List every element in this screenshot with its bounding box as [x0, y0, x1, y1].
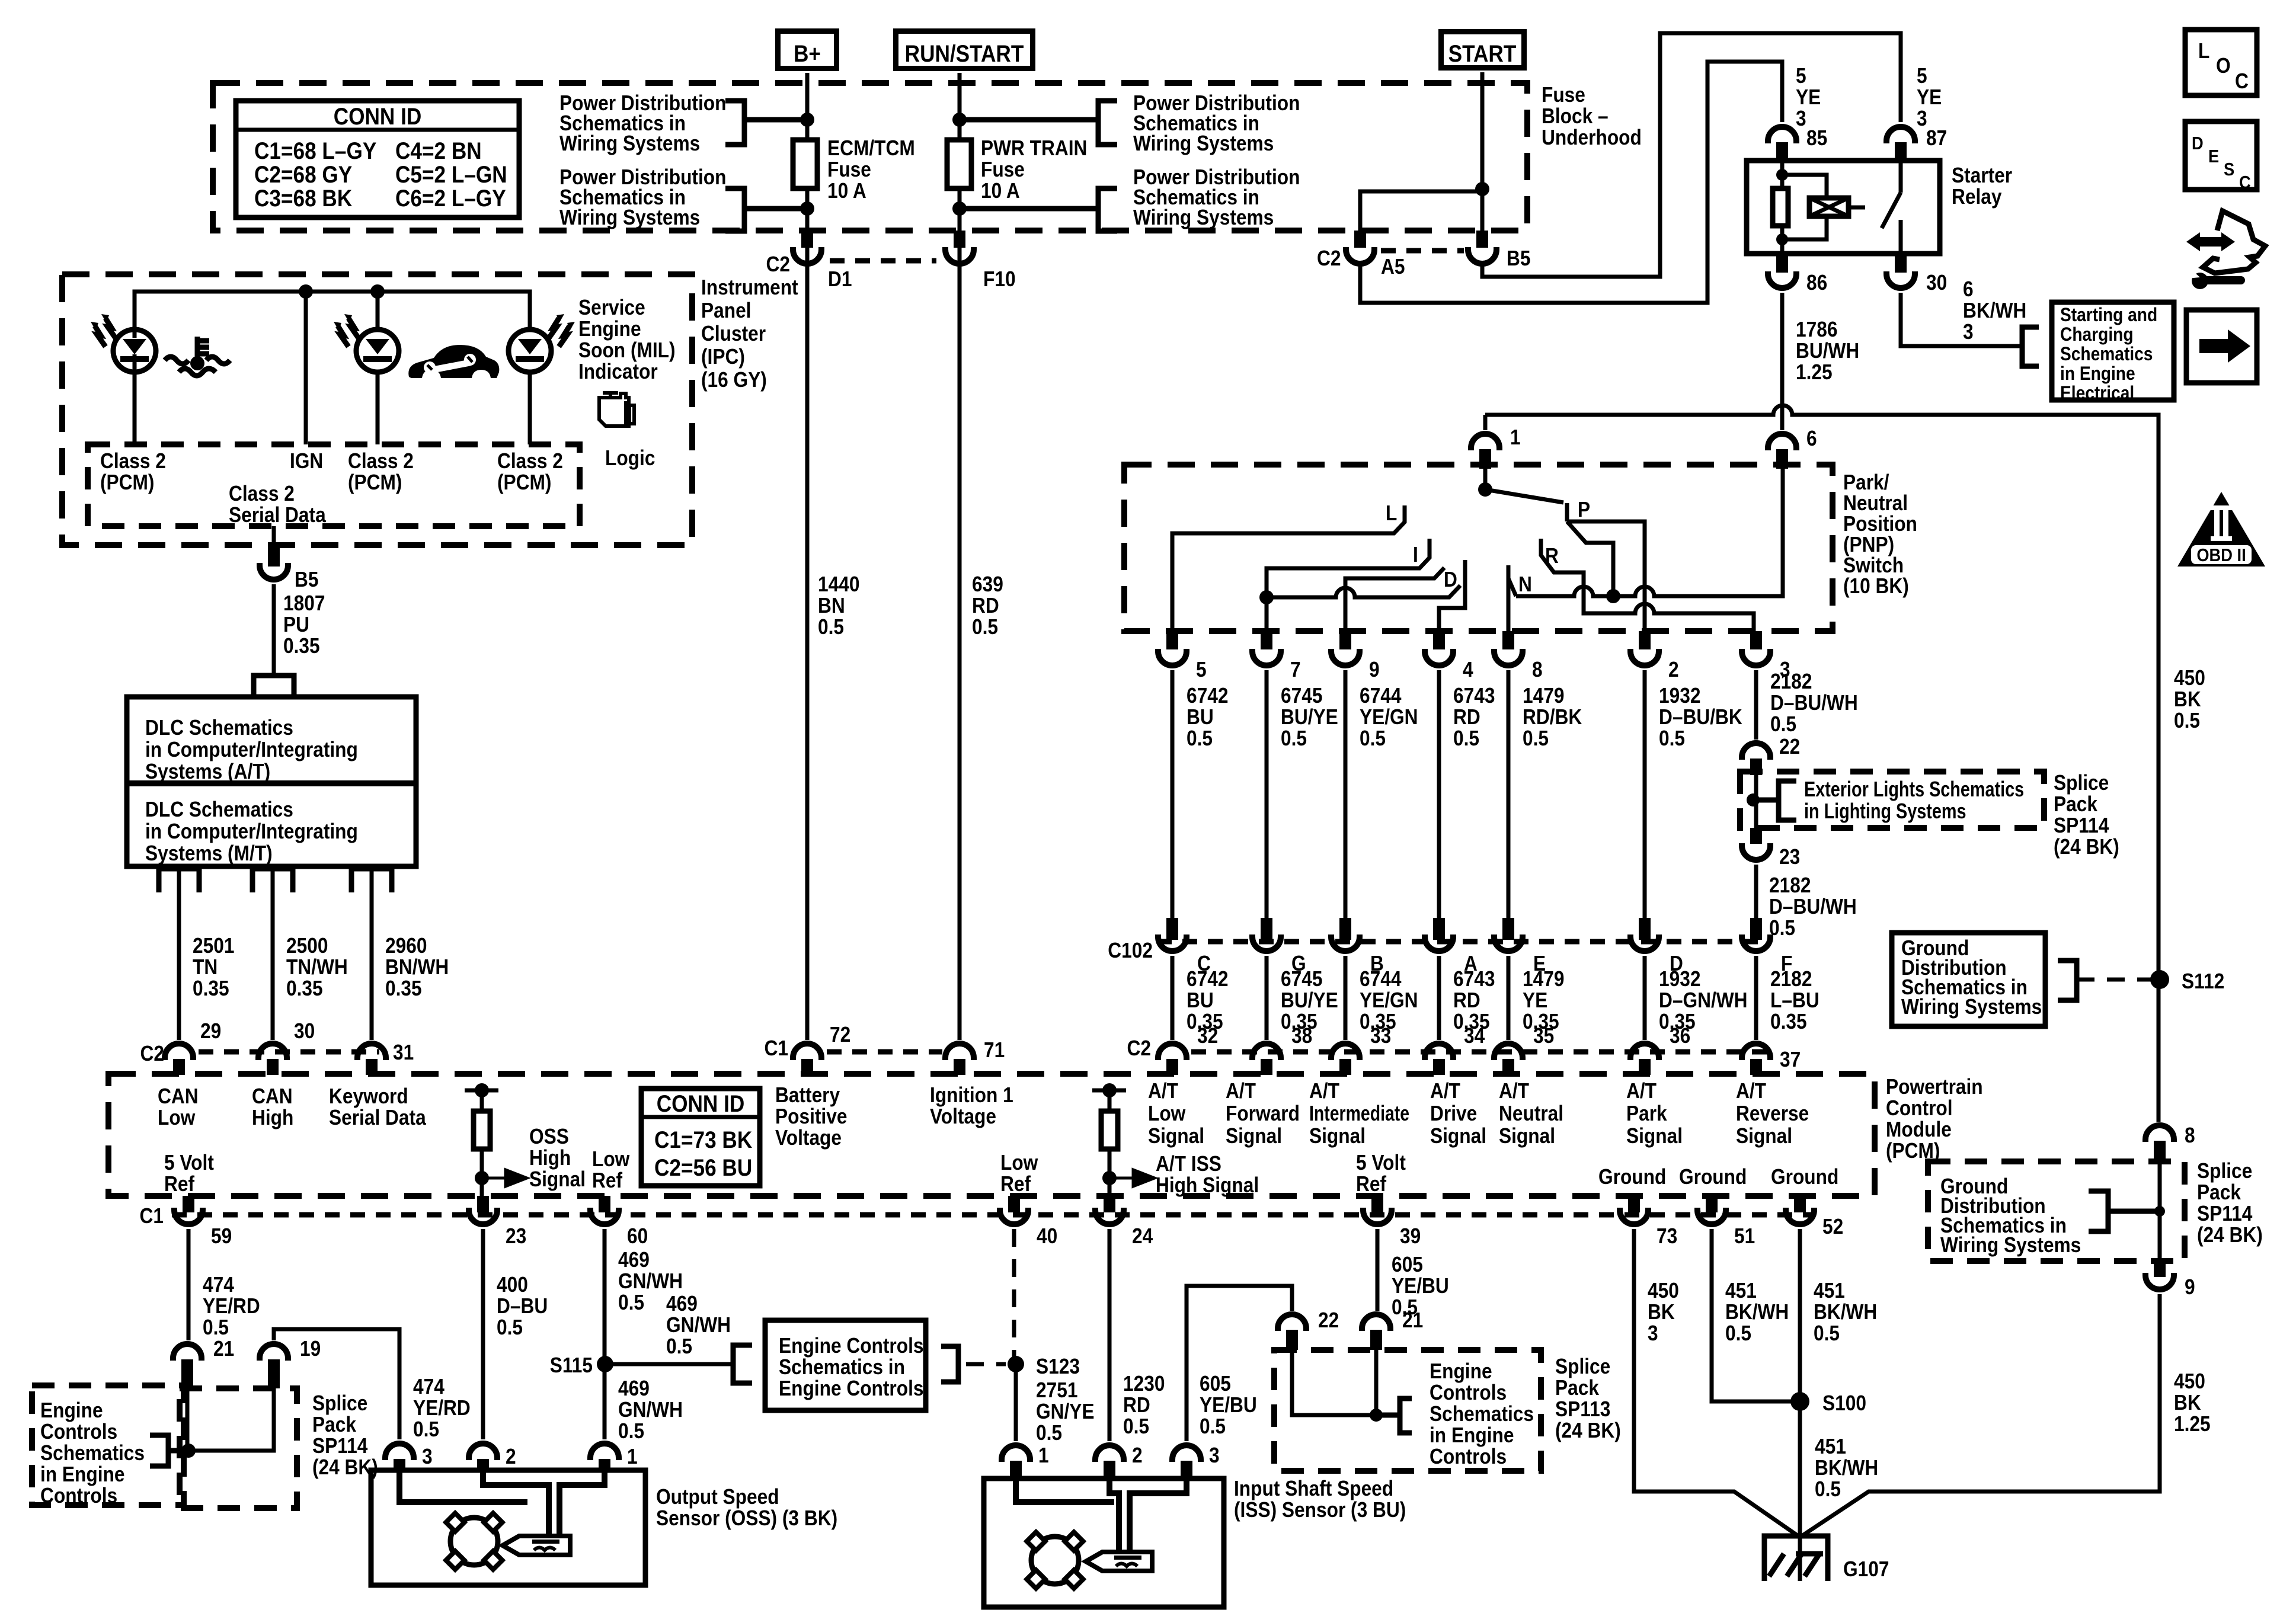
connector C1 pin 60: [599, 1196, 610, 1212]
svg-text:Indicator: Indicator: [578, 360, 658, 383]
svg-text:B+: B+: [794, 40, 821, 67]
svg-text:High: High: [252, 1106, 293, 1129]
svg-text:6743: 6743: [1453, 684, 1495, 708]
svg-text:0.5: 0.5: [2174, 709, 2200, 732]
svg-text:DLC Schematics: DLC Schematics: [145, 716, 293, 740]
svg-text:Controls: Controls: [1430, 1381, 1507, 1404]
svg-text:(ISS) Sensor (3 BU): (ISS) Sensor (3 BU): [1234, 1498, 1406, 1522]
svg-text:Ref: Ref: [592, 1169, 623, 1192]
svg-text:Schematics: Schematics: [40, 1441, 145, 1465]
svg-text:5 Volt: 5 Volt: [164, 1151, 214, 1174]
svg-text:L–BU: L–BU: [1770, 988, 1819, 1012]
svg-text:451: 451: [1815, 1435, 1846, 1458]
svg-text:2182: 2182: [1770, 670, 1812, 693]
svg-text:451: 451: [1814, 1279, 1845, 1302]
svg-text:3: 3: [1648, 1321, 1658, 1345]
svg-text:451: 451: [1725, 1279, 1757, 1302]
svg-text:Ref: Ref: [1356, 1172, 1387, 1196]
svg-text:BK: BK: [2174, 1391, 2201, 1414]
wire pin 5 down to C102: [1171, 670, 1175, 918]
wire 52/S100 to ground: [1798, 1537, 1802, 1581]
svg-text:469: 469: [666, 1292, 698, 1316]
svg-text:S112: S112: [2182, 969, 2224, 993]
svg-text:Class 2: Class 2: [100, 449, 166, 473]
wire C102 A down to PCM: [1437, 956, 1441, 1040]
svg-text:BU/WH: BU/WH: [1796, 339, 1859, 363]
svg-text:Fuse: Fuse: [981, 158, 1025, 181]
svg-text:Battery: Battery: [775, 1083, 840, 1107]
fuse block underhood dashed box: [213, 83, 1527, 231]
svg-text:Powertrain: Powertrain: [1886, 1075, 1983, 1099]
svg-text:59: 59: [211, 1224, 232, 1248]
connector C2 pin 38: [1252, 1044, 1281, 1060]
connector PNP pin 5: [1166, 631, 1178, 649]
svg-text:1932: 1932: [1659, 684, 1700, 708]
svg-text:YE/GN: YE/GN: [1360, 988, 1418, 1012]
svg-text:8: 8: [2185, 1124, 2195, 1147]
svg-text:Park: Park: [1626, 1102, 1667, 1125]
svg-text:Fuse: Fuse: [827, 158, 871, 181]
svg-text:Wiring Systems: Wiring Systems: [1901, 995, 2042, 1019]
svg-text:31: 31: [393, 1041, 414, 1064]
svg-text:Engine Controls: Engine Controls: [779, 1334, 924, 1358]
svg-text:Ground: Ground: [1771, 1165, 1838, 1189]
svg-text:1: 1: [627, 1445, 638, 1468]
svg-text:C1: C1: [140, 1204, 164, 1228]
wire C102 D down to PCM: [1643, 956, 1647, 1040]
svg-text:GN/WH: GN/WH: [618, 1398, 683, 1422]
svg-text:BK/WH: BK/WH: [1963, 299, 2026, 322]
svg-text:(10 BK): (10 BK): [1843, 574, 1909, 598]
svg-text:0.5: 0.5: [1659, 727, 1685, 750]
dotted line D1-F10: [830, 258, 936, 264]
right arrow icon box: [2186, 310, 2257, 383]
wire B5 to relay 87: [1482, 33, 1901, 277]
svg-text:(16 GY): (16 GY): [701, 368, 767, 392]
connector C102 A: [1433, 918, 1445, 940]
svg-text:Starter: Starter: [1952, 164, 2012, 187]
svg-text:Low: Low: [592, 1147, 630, 1171]
connector OSS pin 3: [385, 1444, 414, 1460]
svg-text:BN: BN: [818, 594, 845, 617]
svg-text:71: 71: [984, 1038, 1005, 1062]
svg-text:Splice: Splice: [1555, 1355, 1610, 1378]
connector 31: [357, 1044, 386, 1060]
PNP lever from connector 1: [1483, 469, 1488, 489]
svg-text:6742: 6742: [1187, 684, 1228, 708]
connector C2 A5: [1354, 231, 1366, 248]
svg-text:Voltage: Voltage: [775, 1126, 842, 1150]
svg-text:Controls: Controls: [1430, 1445, 1507, 1468]
wire low ref dashed (40 to S123): [1012, 1229, 1016, 1360]
svg-text:L: L: [1386, 501, 1397, 525]
wire 469 GN/WH (60 to S115 to OSS 1): [603, 1229, 607, 1439]
engine controls ref box (middle): [765, 1320, 926, 1410]
instrument panel cluster dashed box: [62, 274, 692, 545]
svg-text:Drive: Drive: [1430, 1102, 1477, 1125]
svg-text:5: 5: [1796, 64, 1806, 88]
svg-text:C2=68 GY: C2=68 GY: [254, 161, 352, 188]
wire B+ down: [805, 73, 810, 140]
PNP switch dashed box: [1124, 465, 1833, 631]
svg-text:(24 BK): (24 BK): [2054, 835, 2119, 859]
svg-text:RD/BK: RD/BK: [1523, 705, 1582, 729]
svg-text:Splice: Splice: [2197, 1159, 2252, 1183]
connector PNP pin 2: [1639, 631, 1651, 649]
svg-text:10 A: 10 A: [981, 179, 1020, 203]
splice S112: [2150, 970, 2169, 989]
SP113 internal wires: [1292, 1350, 1376, 1415]
svg-text:23: 23: [1779, 845, 1800, 869]
connector C2 pin 34: [1425, 1044, 1453, 1060]
svg-text:Electrical: Electrical: [2060, 383, 2134, 404]
wire C102 C down to PCM: [1171, 956, 1175, 1040]
wire S123 to ISS 1: [1014, 1364, 1018, 1441]
connector B5 (IPC): [268, 545, 280, 567]
svg-text:0.35: 0.35: [385, 977, 422, 1000]
svg-text:C2: C2: [1317, 247, 1341, 270]
fuse PWR TRAIN: [947, 140, 971, 188]
svg-text:Instrument: Instrument: [701, 276, 798, 299]
wrench and arrows icon: [2203, 211, 2265, 273]
svg-text:9: 9: [1369, 658, 1380, 681]
svg-text:1: 1: [1038, 1444, 1049, 1467]
svg-text:Module: Module: [1886, 1118, 1952, 1141]
wire 1807 PU: [272, 584, 276, 676]
dotted connector line A5-B5: [1381, 248, 1464, 254]
svg-text:4: 4: [1463, 658, 1473, 681]
svg-text:0.5: 0.5: [1770, 712, 1796, 736]
svg-text:Charging: Charging: [2060, 324, 2134, 345]
svg-text:1479: 1479: [1523, 967, 1564, 991]
svg-text:D: D: [2192, 133, 2204, 153]
svg-text:0.5: 0.5: [1123, 1414, 1149, 1438]
svg-text:A5: A5: [1381, 255, 1405, 279]
wire C102 E down to PCM: [1507, 956, 1511, 1040]
wire 605 YE/BU (39 to 21): [1376, 1229, 1380, 1311]
svg-text:6745: 6745: [1281, 967, 1322, 991]
svg-text:30: 30: [294, 1019, 315, 1043]
svg-text:30: 30: [1926, 271, 1947, 295]
svg-text:C2: C2: [766, 252, 790, 276]
svg-text:A/T: A/T: [1499, 1079, 1529, 1103]
wire 2500 TN/WH: [271, 869, 275, 1040]
svg-text:3: 3: [1917, 107, 1927, 130]
svg-text:DLC Schematics: DLC Schematics: [145, 798, 293, 821]
svg-text:86: 86: [1806, 271, 1827, 295]
wire RUN/START down: [958, 73, 962, 140]
connector C1 pin 73: [1628, 1196, 1640, 1212]
svg-text:RD: RD: [972, 594, 999, 617]
svg-text:Signal: Signal: [1430, 1124, 1486, 1148]
svg-text:in Computer/Integrating: in Computer/Integrating: [145, 738, 358, 761]
wire 451 BK/WH (51): [1712, 1229, 1792, 1401]
engine logic icon: [603, 393, 618, 397]
connector 21 (SP114): [173, 1344, 202, 1361]
svg-text:Signal: Signal: [529, 1167, 586, 1191]
wire 22 up to ISS 3: [1187, 1286, 1292, 1441]
connector PNP pin 8: [1502, 631, 1514, 649]
svg-text:N: N: [1518, 572, 1532, 596]
svg-text:2182: 2182: [1769, 873, 1811, 897]
connector PNP pin 9: [1339, 631, 1351, 649]
svg-text:BK/WH: BK/WH: [1725, 1300, 1789, 1324]
connector D1: [801, 231, 813, 248]
connector C102 F: [1750, 918, 1762, 940]
svg-text:SP114: SP114: [2054, 814, 2109, 837]
svg-text:0.5: 0.5: [618, 1419, 644, 1443]
svg-text:RUN/START: RUN/START: [905, 40, 1024, 67]
wire P to common rail: [1567, 521, 1613, 596]
svg-text:6: 6: [1963, 277, 1974, 301]
svg-text:D–GN/WH: D–GN/WH: [1659, 988, 1748, 1012]
connector 85: [1768, 127, 1796, 143]
wire pin 8 down to C102: [1507, 670, 1511, 918]
svg-text:C1=73 BK: C1=73 BK: [654, 1126, 752, 1153]
connector 71: [945, 1044, 974, 1060]
svg-text:7: 7: [1290, 658, 1301, 681]
svg-text:0.35: 0.35: [1770, 1010, 1807, 1033]
connector C1 pin 39: [1371, 1196, 1383, 1212]
svg-text:Ignition 1: Ignition 1: [930, 1083, 1013, 1107]
dotted line C1: [827, 1049, 942, 1055]
svg-text:S123: S123: [1036, 1355, 1080, 1378]
connector 30: [1895, 254, 1907, 273]
svg-text:24: 24: [1132, 1224, 1153, 1248]
svg-text:SP114: SP114: [2197, 1202, 2252, 1225]
svg-text:Logic: Logic: [605, 446, 655, 470]
wire 2501 TN: [177, 869, 181, 1040]
svg-text:0.35: 0.35: [193, 977, 229, 1000]
PCM dashed box: [108, 1074, 1875, 1196]
START terminal box: [1441, 32, 1524, 68]
wire C102 B down to PCM: [1344, 956, 1348, 1040]
svg-text:Positive: Positive: [775, 1105, 847, 1128]
svg-text:0.5: 0.5: [1725, 1321, 1751, 1345]
svg-text:Signal: Signal: [1736, 1124, 1792, 1148]
svg-text:YE: YE: [1523, 988, 1547, 1012]
svg-text:Underhood: Underhood: [1542, 126, 1642, 149]
wire 474 YE/RD (59 to 21): [187, 1229, 191, 1340]
branch S115 to engine controls ref: [605, 1362, 733, 1366]
svg-text:6745: 6745: [1281, 684, 1322, 708]
svg-text:Panel: Panel: [701, 299, 751, 322]
svg-text:C2=56 BU: C2=56 BU: [654, 1154, 752, 1181]
svg-text:2501: 2501: [193, 934, 234, 958]
connector C2 pin 37: [1742, 1044, 1770, 1060]
relay coil: [1782, 175, 1827, 239]
svg-text:YE/RD: YE/RD: [203, 1294, 260, 1318]
DESC icon box: [2185, 121, 2257, 190]
svg-text:C1: C1: [765, 1036, 788, 1060]
svg-text:Ground: Ground: [1598, 1165, 1666, 1189]
svg-text:BK/WH: BK/WH: [1814, 1300, 1877, 1324]
connector 21 (SP113): [1362, 1314, 1390, 1331]
svg-text:BU: BU: [1187, 988, 1214, 1012]
svg-text:1.25: 1.25: [1796, 360, 1833, 384]
svg-text:60: 60: [627, 1224, 648, 1248]
svg-text:ECM/TCM: ECM/TCM: [827, 136, 915, 160]
dashed link to S112: [2077, 978, 2151, 982]
svg-text:Controls: Controls: [40, 1420, 117, 1444]
svg-text:S: S: [2224, 159, 2234, 180]
svg-text:21: 21: [1402, 1308, 1423, 1332]
connector PNP pin 4: [1433, 631, 1445, 649]
wire pin 3 down to connector 22: [1754, 670, 1758, 740]
car with wrench icon: [408, 345, 499, 378]
svg-text:0.35: 0.35: [283, 634, 320, 658]
svg-text:0.5: 0.5: [1523, 727, 1549, 750]
svg-text:Class 2: Class 2: [229, 482, 295, 505]
svg-text:C5=2 L–GN: C5=2 L–GN: [395, 161, 507, 188]
svg-text:Serial Data: Serial Data: [329, 1106, 427, 1129]
OSS plug icon: [503, 1536, 570, 1555]
wire P to pin 2: [1567, 521, 1645, 632]
svg-text:Starting and: Starting and: [2060, 305, 2157, 325]
svg-text:YE: YE: [1917, 85, 1942, 109]
connector C2 pin 35: [1494, 1044, 1523, 1060]
ground distribution ref box (S112): [1892, 933, 2045, 1026]
OBD II icon: [2177, 492, 2265, 567]
svg-text:Exterior Lights Schematics: Exterior Lights Schematics: [1804, 777, 2024, 801]
svg-text:F10: F10: [983, 267, 1016, 291]
ISS gear icon: [1031, 1537, 1079, 1584]
splice S123: [1008, 1356, 1024, 1372]
connector C2 pin 36: [1630, 1044, 1659, 1060]
LED telltale 1: [133, 371, 137, 444]
entry bracket DLC: [254, 676, 294, 697]
svg-text:Fuse: Fuse: [1542, 83, 1585, 107]
connector C102 C: [1166, 918, 1178, 940]
OSS internal wires: [399, 1470, 527, 1502]
svg-text:6742: 6742: [1187, 967, 1228, 991]
svg-text:D–BU/BK: D–BU/BK: [1659, 705, 1742, 729]
svg-text:1: 1: [1510, 425, 1521, 449]
connector C102 B: [1339, 918, 1351, 940]
svg-text:5: 5: [1196, 658, 1207, 681]
svg-text:YE: YE: [1796, 85, 1821, 109]
svg-text:OSS: OSS: [529, 1125, 569, 1148]
wire U between 21 and 19: [187, 1388, 274, 1451]
svg-text:1807: 1807: [283, 591, 325, 615]
connector C2 B5 (fuse block): [1476, 231, 1488, 248]
svg-text:0.5: 0.5: [1187, 727, 1213, 750]
svg-text:Cluster: Cluster: [701, 322, 766, 345]
starting and charging ref box: [2052, 302, 2174, 400]
svg-text:O: O: [2216, 54, 2231, 78]
svg-text:A/T: A/T: [1736, 1079, 1766, 1103]
svg-text:Wiring Systems: Wiring Systems: [559, 132, 700, 155]
svg-text:5: 5: [1917, 64, 1927, 88]
svg-text:Engine: Engine: [40, 1398, 103, 1422]
svg-text:2: 2: [1668, 658, 1679, 681]
svg-text:72: 72: [830, 1023, 850, 1046]
svg-text:87: 87: [1926, 126, 1947, 150]
svg-text:A/T ISS: A/T ISS: [1156, 1152, 1221, 1176]
wire pin 7 down to C102: [1265, 670, 1269, 918]
svg-text:0.5: 0.5: [1814, 1321, 1840, 1345]
svg-text:40: 40: [1037, 1224, 1057, 1248]
connector C102 G: [1261, 918, 1272, 940]
svg-text:P: P: [1578, 498, 1590, 521]
svg-text:CONN ID: CONN ID: [657, 1090, 745, 1117]
svg-text:0.35: 0.35: [286, 977, 323, 1000]
wire START down: [1480, 72, 1485, 231]
svg-text:in Computer/Integrating: in Computer/Integrating: [145, 820, 358, 843]
svg-text:450: 450: [2174, 1369, 2205, 1393]
svg-text:0.5: 0.5: [666, 1334, 692, 1358]
svg-text:0.5: 0.5: [1036, 1421, 1062, 1445]
svg-text:C6=2 L–GY: C6=2 L–GY: [395, 185, 506, 212]
svg-text:8: 8: [1532, 658, 1543, 681]
wire pin7 hook at D: [1267, 585, 1460, 597]
svg-text:Engine: Engine: [1430, 1359, 1492, 1383]
OSS sensor box: [371, 1470, 645, 1585]
svg-text:2182: 2182: [1770, 967, 1812, 991]
svg-text:Schematics in: Schematics in: [779, 1355, 905, 1379]
svg-text:CAN: CAN: [252, 1084, 293, 1108]
exterior lights dashed box: [1740, 772, 2044, 828]
svg-text:Pack: Pack: [312, 1413, 356, 1436]
svg-text:S115: S115: [550, 1353, 593, 1377]
svg-text:(IPC): (IPC): [701, 345, 745, 369]
connector 87: [1886, 127, 1915, 143]
svg-text:Ground: Ground: [1679, 1165, 1747, 1189]
wire 1786 BU/WH: [1780, 293, 1785, 427]
svg-text:Input Shaft Speed: Input Shaft Speed: [1234, 1477, 1393, 1500]
svg-text:33: 33: [1370, 1024, 1391, 1048]
svg-text:I: I: [1413, 543, 1418, 567]
splice pack SP114 dashed box (right): [1928, 1161, 2185, 1261]
svg-text:(24 BK): (24 BK): [1555, 1419, 1621, 1442]
svg-text:in Engine: in Engine: [2060, 363, 2135, 384]
svg-text:in Lighting Systems: in Lighting Systems: [1804, 799, 1966, 823]
svg-text:0.5: 0.5: [972, 615, 998, 639]
wire pin 2 down to C102: [1643, 670, 1647, 918]
svg-text:D1: D1: [828, 267, 852, 291]
wire A5 to relay 85: [1360, 62, 1782, 303]
svg-text:1932: 1932: [1659, 967, 1700, 991]
svg-text:1479: 1479: [1523, 684, 1564, 708]
svg-text:1.25: 1.25: [2174, 1412, 2211, 1436]
svg-text:Engine: Engine: [578, 317, 641, 341]
lightning arrows 2: [348, 318, 359, 339]
svg-text:C1=68 L–GY: C1=68 L–GY: [254, 137, 376, 164]
connector C1 pin 24: [1104, 1196, 1115, 1212]
svg-text:(PCM): (PCM): [497, 471, 551, 494]
connector 29: [165, 1044, 193, 1060]
svg-text:34: 34: [1464, 1024, 1485, 1048]
svg-text:RD: RD: [1453, 988, 1480, 1012]
CONN ID table (fuse block): [236, 101, 519, 217]
svg-text:5 Volt: 5 Volt: [1356, 1151, 1406, 1174]
connector 8: [2145, 1125, 2174, 1142]
svg-text:1786: 1786: [1796, 318, 1837, 341]
dotted line 29-31: [199, 1049, 379, 1055]
wire branch to A5: [1360, 191, 1482, 231]
svg-text:High: High: [529, 1146, 571, 1170]
svg-text:C: C: [2235, 69, 2249, 93]
svg-text:C102: C102: [1108, 939, 1153, 962]
dashed link to engine controls ref: [966, 1362, 1006, 1366]
connector PNP pin 3: [1750, 631, 1762, 649]
svg-text:TN: TN: [193, 955, 218, 979]
ISS plug icon: [1086, 1552, 1152, 1571]
svg-text:Class 2: Class 2: [497, 449, 563, 473]
relay switch: [1899, 161, 1903, 193]
wire through splice: [1754, 775, 1758, 828]
svg-text:Intermediate: Intermediate: [1309, 1102, 1409, 1125]
